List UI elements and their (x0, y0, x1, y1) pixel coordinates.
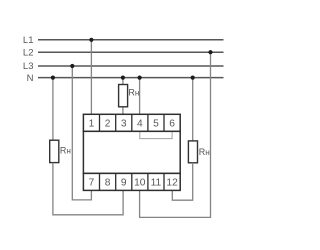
terminal divider 10|11 (147, 173, 149, 190)
wire L2 line (38, 51, 224, 53)
junction dot L3 (70, 64, 74, 68)
internal link terminal 4 to 6 (140, 132, 172, 139)
wire N line (38, 77, 224, 79)
svg-text:Rн: Rн (199, 147, 210, 157)
terminal divider 9|10 (131, 173, 133, 190)
resistor R load right (188, 141, 197, 163)
terminal row top (83, 114, 180, 131)
terminal divider 5|6 (163, 114, 165, 131)
wire L3 line (38, 65, 224, 67)
terminal row bottom (83, 173, 180, 190)
terminal divider 11|12 (163, 173, 165, 190)
svg-text:1: 1 (89, 118, 95, 129)
terminal divider 2|3 (115, 114, 117, 131)
svg-text:11: 11 (151, 177, 162, 188)
svg-text:L2: L2 (23, 47, 34, 58)
terminal divider 4|5 (147, 114, 149, 131)
junction dot N-R1 (121, 76, 125, 80)
wire resistor R1 bottom to terminal 3 (122, 107, 124, 115)
svg-text:4: 4 (137, 118, 143, 129)
wire N to terminal 4 (139, 78, 141, 115)
junction dot L2 (208, 50, 212, 54)
wire N to resistor R1 top (122, 78, 124, 85)
terminal divider 8|9 (115, 173, 117, 190)
svg-text:N: N (27, 73, 34, 84)
resistor R load left (50, 140, 59, 162)
svg-text:10: 10 (134, 177, 146, 188)
terminal divider 1|2 (99, 114, 101, 131)
terminal divider 7|8 (99, 173, 101, 190)
svg-text:L1: L1 (23, 35, 34, 46)
junction dot L1 (89, 38, 93, 42)
svg-text:7: 7 (89, 177, 95, 188)
wire L1 line (38, 39, 224, 41)
wire resistor R2 bottom to terminal 9 (53, 163, 123, 215)
wire N left to resistor R2 (52, 78, 54, 141)
svg-text:2: 2 (105, 118, 111, 129)
junction dot N-T4 (138, 76, 142, 80)
wire L2 down-right to terminal 10 (140, 52, 211, 217)
svg-text:8: 8 (105, 177, 111, 188)
svg-text:Rн: Rн (128, 88, 139, 98)
wire N right to resistor R3 (192, 78, 194, 141)
device body (83, 131, 180, 173)
svg-text:L3: L3 (23, 61, 34, 72)
wire L1 to terminal 1 (90, 40, 92, 115)
junction dot N-left (51, 76, 55, 80)
resistor R load top (119, 85, 128, 107)
wire L3 down-left to terminal 7 (72, 66, 91, 200)
svg-text:12: 12 (166, 177, 178, 188)
wire resistor R3 bottom to terminal 12 (172, 163, 192, 200)
svg-text:6: 6 (169, 118, 175, 129)
svg-text:9: 9 (121, 177, 127, 188)
junction dot N-right (191, 76, 195, 80)
svg-text:5: 5 (153, 118, 159, 129)
svg-text:3: 3 (121, 118, 127, 129)
svg-text:Rн: Rн (60, 146, 71, 156)
terminal divider 3|4 (131, 114, 133, 131)
